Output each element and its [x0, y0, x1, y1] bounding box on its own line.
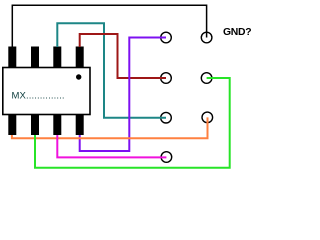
- IC U1 pin 8 (bottom row, rightmost): [76, 114, 84, 135]
- wire purple: pin 8 to pad A1: [80, 38, 166, 152]
- IC U1 pin 1 (top row, leftmost): [8, 47, 16, 69]
- IC U1 pin 7 (bottom row): [53, 114, 61, 135]
- IC U1 pin-1 marker dot: [76, 74, 81, 79]
- node pad A4 (left column, row 4): [161, 152, 172, 163]
- wire black: pin 1 to GND pad B1: [12, 5, 206, 47]
- node pad A1 (left column, row 1): [161, 32, 172, 43]
- wire magenta: pin 7 to pad A4: [57, 135, 166, 157]
- svg-text:GND?: GND?: [223, 27, 251, 38]
- node pad B3 (right column, row 3): [202, 112, 213, 123]
- IC U1 pin 2 (top row): [31, 47, 39, 69]
- node pad B2 (right column, row 2): [201, 73, 212, 84]
- svg-text:MX..............: MX..............: [12, 90, 65, 101]
- IC U1 pin 4 (top row, rightmost): [76, 47, 84, 69]
- node pad A3 (left column, row 3): [161, 112, 172, 123]
- wire dark red: pin 4 to pad A2: [80, 34, 166, 78]
- IC U1 pin 6 (bottom row): [31, 114, 39, 135]
- wire green: pin 6 to pad B2: [35, 78, 230, 168]
- IC U1 pin 3 (top row): [53, 47, 61, 69]
- wire orange: pin 5 to pad B3: [12, 117, 208, 138]
- IC U1 pin 5 (bottom row, leftmost): [8, 114, 16, 135]
- IC U1 body (MX flash chip): [3, 68, 90, 115]
- node pad B1 GND pad (right column, row 1): [201, 32, 212, 43]
- node pad A2 (left column, row 2): [161, 73, 172, 84]
- wire teal: pin 3 to pad A3: [57, 23, 166, 118]
